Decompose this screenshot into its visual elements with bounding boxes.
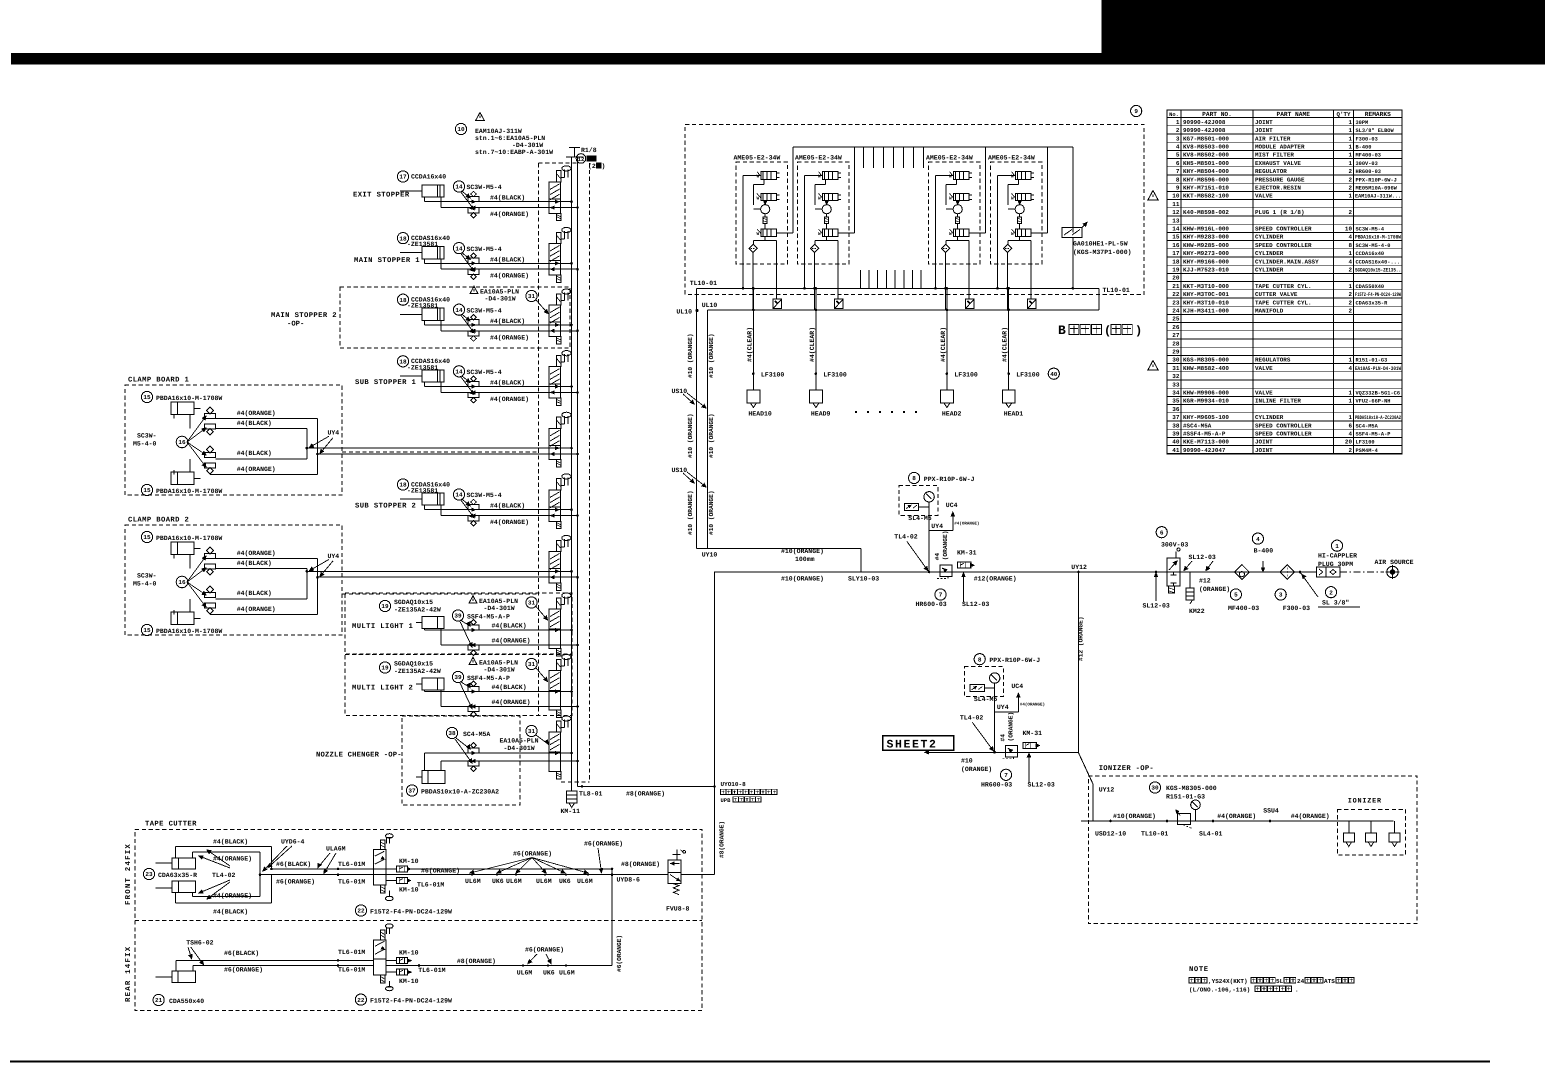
svg-text:(KGS-M37P1-000): (KGS-M37P1-000) <box>1073 249 1132 256</box>
svg-text:#4(ORANGE): #4(ORANGE) <box>237 466 276 473</box>
svg-text:TSH6-02: TSH6-02 <box>186 940 213 947</box>
title bar <box>11 53 1545 65</box>
wire pair station 7 to supply bus <box>322 570 572 572</box>
svg-text:38: 38 <box>1172 422 1180 429</box>
warning triangle ref row 31 <box>1148 361 1158 371</box>
svg-text:7: 7 <box>1176 168 1180 175</box>
rear cutter wires <box>176 959 373 961</box>
svg-text:#4(CLEAR): #4(CLEAR) <box>1002 327 1009 362</box>
svg-text:GA010HE1-PL-5W: GA010HE1-PL-5W <box>1073 241 1128 248</box>
svg-text:PBDA16x10-M-1708W: PBDA16x10-M-1708W <box>156 488 222 495</box>
svg-text:JOINT: JOINT <box>1255 447 1273 454</box>
svg-text:EAM10AJ-311W...: EAM10AJ-311W... <box>1355 194 1401 200</box>
svg-text:UYD6-4: UYD6-4 <box>281 839 305 846</box>
svg-text:31: 31 <box>528 661 536 668</box>
svg-text:UY12: UY12 <box>1099 787 1115 794</box>
svg-text:R151-01-G3: R151-01-G3 <box>1166 794 1205 801</box>
hi-cappler plug 30PM circle 1 <box>1331 540 1342 551</box>
svg-text:#4(CLEAR): #4(CLEAR) <box>940 327 947 362</box>
cylinder ref circle 18 <box>397 294 408 305</box>
front cutter wires to valve <box>272 868 374 870</box>
svg-text:2: 2 <box>1348 176 1352 183</box>
svg-text:UYD8-6: UYD8-6 <box>617 877 641 884</box>
svg-text:UL6M: UL6M <box>559 970 575 977</box>
svg-text:#10(ORANGE): #10(ORANGE) <box>781 548 824 555</box>
dash-dot line to air source <box>1340 571 1384 573</box>
svg-text:#4(ORANGE): #4(ORANGE) <box>1291 813 1330 820</box>
svg-text:1: 1 <box>1348 160 1352 167</box>
svg-text:31: 31 <box>528 728 536 735</box>
svg-text:4: 4 <box>1348 365 1352 372</box>
speed controllers on wires <box>468 381 479 386</box>
svg-text:#4: #4 <box>934 553 941 561</box>
svg-text:300V-03: 300V-03 <box>1356 161 1378 167</box>
svg-text:CDA63x35-R: CDA63x35-R <box>1356 300 1389 306</box>
svg-text:US10: US10 <box>672 467 688 474</box>
svg-text:6: 6 <box>1348 422 1352 429</box>
svg-text:SC3W-: SC3W- <box>137 433 157 440</box>
svg-text:1: 1 <box>1176 119 1180 126</box>
svg-text:39: 39 <box>454 674 462 681</box>
svg-text:2: 2 <box>1348 299 1352 306</box>
svg-text:-D4-301W: -D4-301W <box>504 745 535 752</box>
svg-text:VQZ332B-5G1-C6: VQZ332B-5G1-C6 <box>1356 391 1401 397</box>
svg-text:CDA550X40: CDA550X40 <box>1356 284 1385 290</box>
svg-text:SL 3/8": SL 3/8" <box>1322 600 1349 607</box>
svg-text:SL12-03: SL12-03 <box>1028 781 1055 788</box>
svg-text:#10 (ORANGE): #10 (ORANGE) <box>708 413 715 458</box>
svg-text:20: 20 <box>1345 439 1353 446</box>
svg-text:15: 15 <box>143 394 151 401</box>
MULTI LIGHT 1 warning EA10A5-PLN circle 31 <box>469 596 477 603</box>
TL4-02 drop to regulator <box>994 712 996 753</box>
MAIN STOPPER 1 cylinder <box>422 247 444 259</box>
svg-text:1: 1 <box>1348 135 1352 142</box>
front cutter cylinder CDA63x35-R circle 23 <box>172 858 195 869</box>
svg-text:(: ( <box>1104 324 1111 338</box>
wire pair station 2 to supply bus <box>482 262 572 264</box>
svg-text:SL4-M5: SL4-M5 <box>908 515 932 522</box>
svg-text:4: 4 <box>1256 536 1260 543</box>
svg-text:-ZE135A2-42W: -ZE135A2-42W <box>394 668 441 675</box>
svg-text:(L/ONO.-106,-116): (L/ONO.-106,-116) <box>1189 987 1250 994</box>
svg-text:B: B <box>1058 323 1066 338</box>
wire pair station 1 to supply bus <box>482 201 572 203</box>
svg-text:F15T2-F4-PN-DC24-129W: F15T2-F4-PN-DC24-129W <box>370 909 452 916</box>
svg-text:19: 19 <box>381 603 389 610</box>
svg-text:8: 8 <box>1348 242 1352 249</box>
svg-text:#4(ORANGE): #4(ORANGE) <box>490 334 529 341</box>
svg-text:#4(ORANGE): #4(ORANGE) <box>490 396 529 403</box>
svg-text:AME05-E2-34W: AME05-E2-34W <box>795 155 842 162</box>
warning triangle ref row 10 <box>1148 191 1158 201</box>
svg-text:EXHAUST VALVE: EXHAUST VALVE <box>1255 160 1301 167</box>
svg-text:ATS: ATS <box>1324 978 1335 985</box>
abbreviated station ticks top <box>863 147 865 168</box>
svg-text:2: 2 <box>1348 185 1352 192</box>
svg-text:15: 15 <box>143 487 151 494</box>
exhaust valve 300V-03 circle 6 <box>1156 527 1167 538</box>
svg-text:24: 24 <box>1297 978 1305 985</box>
TAPE CUTTER dashed box <box>135 830 702 1011</box>
svg-text:SSF4-M5-A-P: SSF4-M5-A-P <box>1356 432 1391 438</box>
svg-text:37: 37 <box>408 788 416 795</box>
svg-text:32: 32 <box>1172 373 1180 380</box>
svg-text:2: 2 <box>1176 127 1180 134</box>
clamp board 2 UY4 junction <box>306 570 309 573</box>
drop to HEAD2 <box>946 288 948 390</box>
svg-text:REGULATORS: REGULATORS <box>1255 357 1291 364</box>
svg-text:11: 11 <box>1172 201 1180 208</box>
svg-text:SC3W-M5-4: SC3W-M5-4 <box>1356 227 1385 233</box>
svg-text:#4(ORANGE): #4(ORANGE) <box>213 856 252 863</box>
wire pair station 6 to supply bus <box>482 509 572 511</box>
SUB STOPPER 2 cylinder <box>422 493 444 505</box>
svg-text:#6(ORANGE): #6(ORANGE) <box>421 867 460 874</box>
svg-text:KM-11: KM-11 <box>561 808 581 815</box>
svg-text:PRESSURE GAUGE: PRESSURE GAUGE <box>1255 176 1305 183</box>
svg-text:UL6M: UL6M <box>536 878 552 885</box>
svg-text:TL6-01M: TL6-01M <box>417 882 444 889</box>
svg-text:-ZE135A2-42W: -ZE135A2-42W <box>394 607 441 614</box>
svg-text:HEAD9: HEAD9 <box>811 411 831 418</box>
svg-text:#6(ORANGE): #6(ORANGE) <box>525 947 564 954</box>
valve V10 station 10 <box>556 721 561 732</box>
svg-text:KM-10: KM-10 <box>399 858 419 865</box>
regulator HR600-03 circle 7 <box>1006 745 1018 757</box>
svg-text:#4(BLACK): #4(BLACK) <box>237 450 272 457</box>
speed controllers on wires <box>468 505 479 510</box>
svg-text:18: 18 <box>399 359 407 366</box>
svg-text:#4(ORANGE): #4(ORANGE) <box>490 211 529 218</box>
pressure gauge PPX-R10P-6W-J circle 8 <box>974 654 985 665</box>
svg-text:UY4: UY4 <box>328 430 340 437</box>
svg-text:18: 18 <box>399 297 407 304</box>
svg-text:CLAMP BOARD 1: CLAMP BOARD 1 <box>128 377 190 385</box>
TL10-01 bus <box>696 287 1099 289</box>
svg-text:PBDAS10x10-A-ZC230A2: PBDAS10x10-A-ZC230A2 <box>421 789 499 796</box>
svg-text:9: 9 <box>1176 185 1180 192</box>
svg-text:19: 19 <box>1172 267 1180 274</box>
svg-text:10: 10 <box>1345 226 1353 233</box>
svg-text:14: 14 <box>455 369 463 376</box>
svg-text:US10: US10 <box>672 388 688 395</box>
svg-text:6: 6 <box>1160 529 1164 536</box>
svg-text:#6(ORANGE): #6(ORANGE) <box>224 967 263 974</box>
svg-text:29: 29 <box>1172 349 1180 356</box>
svg-text:#10 (ORANGE): #10 (ORANGE) <box>687 333 694 378</box>
svg-text:25: 25 <box>1172 316 1180 323</box>
SUB STOPPER 1 cylinder <box>422 370 444 382</box>
MULTI LIGHT 1 speed controllers SSF4 circle 39 <box>452 610 463 621</box>
svg-text:SC3W-M5-4: SC3W-M5-4 <box>467 246 502 253</box>
svg-text:SHEET2: SHEET2 <box>887 739 938 752</box>
cylinder ref circle 18 <box>397 233 408 244</box>
valve V6 station 6 <box>556 479 561 490</box>
svg-text:22: 22 <box>357 908 365 915</box>
nozzle chenger cylinder PBDAS10x10 circle 37 <box>422 771 445 784</box>
svg-text:16: 16 <box>1172 242 1180 249</box>
svg-text:KV8-M8503-000: KV8-M8503-000 <box>1183 144 1229 151</box>
svg-text:TAPE CUTTER CYL.: TAPE CUTTER CYL. <box>1255 299 1312 306</box>
svg-text:EA10A5-PLN: EA10A5-PLN <box>500 738 539 745</box>
svg-text:UY10: UY10 <box>702 552 718 559</box>
UY10 wire <box>696 548 861 550</box>
svg-text:CYLINDER: CYLINDER <box>1255 234 1284 241</box>
svg-text:TL10-01: TL10-01 <box>1141 831 1168 838</box>
svg-text:#4(BLACK): #4(BLACK) <box>237 420 272 427</box>
svg-text:3: 3 <box>1176 135 1180 142</box>
svg-text:18: 18 <box>399 235 407 242</box>
svg-text:40: 40 <box>1172 439 1180 446</box>
svg-text:SPEED CONTROLLER: SPEED CONTROLLER <box>1255 226 1312 233</box>
svg-text:UL10: UL10 <box>676 309 692 316</box>
svg-text:#4: #4 <box>999 734 1006 742</box>
svg-text:stn.1~6:EA10A5-PLN: stn.1~6:EA10A5-PLN <box>475 135 545 142</box>
svg-text:PART NO.: PART NO. <box>1202 111 1232 118</box>
svg-text:REGULATOR: REGULATOR <box>1255 168 1287 175</box>
svg-text:23: 23 <box>145 871 153 878</box>
svg-text:4: 4 <box>1348 234 1352 241</box>
ionizer regulator R151-01-G3 circle 30 <box>1149 782 1160 793</box>
svg-text:EXIT STOPPER: EXIT STOPPER <box>353 192 410 200</box>
svg-text:KM-31: KM-31 <box>957 550 977 557</box>
clamp board 2 cylinder lower PBDA16x10 circle 15 <box>141 624 152 635</box>
svg-text:#12(ORANGE): #12(ORANGE) <box>974 576 1017 583</box>
svg-text:10: 10 <box>457 126 465 133</box>
svg-text:8: 8 <box>1176 176 1180 183</box>
clamp board 2 wires <box>210 558 318 560</box>
svg-text:#6(BLACK): #6(BLACK) <box>276 861 311 868</box>
svg-text:-ZE13581: -ZE13581 <box>407 303 438 310</box>
svg-text:EJECTOR.RESIN: EJECTOR.RESIN <box>1255 185 1301 192</box>
svg-text:SPEED CONTROLLER: SPEED CONTROLLER <box>1255 431 1312 438</box>
svg-text:KHY-M3T0C-001: KHY-M3T0C-001 <box>1183 291 1229 298</box>
svg-text:LF3100: LF3100 <box>761 372 785 379</box>
svg-text:TL4-02: TL4-02 <box>960 715 984 722</box>
svg-text:KGS-M8305-000: KGS-M8305-000 <box>1183 357 1229 364</box>
speed controller SC3W-M5-4 circle 14 <box>453 304 464 315</box>
svg-text:15: 15 <box>1172 234 1180 241</box>
svg-text:-ZE13581: -ZE13581 <box>407 364 438 371</box>
svg-text:#SSF4-M5-A-P: #SSF4-M5-A-P <box>1183 431 1226 438</box>
svg-text:SGDAQ10x15-ZE135..: SGDAQ10x15-ZE135.. <box>1355 268 1401 274</box>
SHEET2 line <box>925 751 1079 753</box>
svg-text:TAPE CUTTER: TAPE CUTTER <box>145 821 197 829</box>
manifold title EAM10AJ-311W with circle 10 <box>476 113 485 121</box>
svg-text:KM-31: KM-31 <box>1023 730 1043 737</box>
svg-text:UL10: UL10 <box>702 302 718 309</box>
svg-text:): ) <box>602 163 606 170</box>
svg-text:JOINT: JOINT <box>1255 119 1273 126</box>
svg-text:1: 1 <box>1348 152 1352 159</box>
svg-text:31: 31 <box>528 600 536 607</box>
svg-text:B-400: B-400 <box>1254 548 1274 555</box>
clamp board 1 wires <box>210 418 318 420</box>
svg-text:CCDA16x40: CCDA16x40 <box>411 173 446 180</box>
svg-text:16: 16 <box>178 579 186 586</box>
svg-text:#6(BLACK): #6(BLACK) <box>224 950 259 957</box>
svg-text:8: 8 <box>978 656 982 663</box>
svg-text:SC4-M5A: SC4-M5A <box>463 731 490 738</box>
UC4 branch <box>929 530 953 532</box>
svg-text:15: 15 <box>143 627 151 634</box>
svg-text:22: 22 <box>357 997 365 1004</box>
speed controllers on wires <box>468 258 479 263</box>
svg-text:36: 36 <box>1172 406 1180 413</box>
valve V8 station 8 <box>556 598 561 609</box>
svg-text:UK6: UK6 <box>543 970 555 977</box>
svg-text:#10 (ORANGE): #10 (ORANGE) <box>708 333 715 378</box>
svg-text:#4(ORANGE): #4(ORANGE) <box>1217 813 1256 820</box>
bottom border line <box>10 1061 1490 1063</box>
svg-text:#4(BLACK): #4(BLACK) <box>492 623 527 630</box>
svg-text:KJH-M3411-000: KJH-M3411-000 <box>1183 308 1229 315</box>
svg-text:CLAMP BOARD 2: CLAMP BOARD 2 <box>128 517 189 525</box>
svg-text:7: 7 <box>1004 772 1008 779</box>
svg-text:20: 20 <box>1172 275 1180 282</box>
svg-text:#4(BLACK): #4(BLACK) <box>490 195 525 202</box>
svg-text:KG7-M8501-000: KG7-M8501-000 <box>1183 135 1229 142</box>
svg-text:1: 1 <box>1348 390 1352 397</box>
svg-text:#12 (ORANGE): #12 (ORANGE) <box>1078 616 1085 661</box>
speed controller SC3W-M5-4 circle 14 <box>453 243 464 254</box>
svg-text:REMARKS: REMARKS <box>1365 111 1391 118</box>
front cutter wire loops <box>176 845 272 847</box>
svg-text:22: 22 <box>1172 291 1180 298</box>
svg-text:PBDA16x10-M-1708W: PBDA16x10-M-1708W <box>156 395 222 402</box>
svg-text:5: 5 <box>1176 152 1180 159</box>
svg-text:PSM4M-4: PSM4M-4 <box>1356 448 1379 454</box>
svg-text:#4(ORANGE): #4(ORANGE) <box>237 606 276 613</box>
svg-text:SGDAQ10x15: SGDAQ10x15 <box>394 599 433 606</box>
UC4 branch <box>995 711 1019 713</box>
svg-text:#6(ORANGE): #6(ORANGE) <box>616 935 623 972</box>
svg-text:SL12-03: SL12-03 <box>962 601 989 608</box>
svg-text:F15T2-F4-PN-DC24-129W: F15T2-F4-PN-DC24-129W <box>1355 292 1402 298</box>
svg-text:34: 34 <box>1172 390 1180 397</box>
svg-text:MAIN STOPPER 2: MAIN STOPPER 2 <box>271 312 337 320</box>
svg-text:CYLINDER: CYLINDER <box>1255 414 1284 421</box>
svg-text:AIR SOURCE: AIR SOURCE <box>1375 559 1414 566</box>
svg-text:#10: #10 <box>961 758 973 765</box>
svg-text:CUTTER VALVE: CUTTER VALVE <box>1255 291 1298 298</box>
svg-text:TAPE CUTTER CYL.: TAPE CUTTER CYL. <box>1255 283 1312 290</box>
svg-text:PBDA16x10-M-1708W: PBDA16x10-M-1708W <box>156 628 222 635</box>
svg-text:SUB STOPPER 1: SUB STOPPER 1 <box>355 379 417 387</box>
svg-text:31: 31 <box>528 293 536 300</box>
svg-text:21: 21 <box>1172 283 1180 290</box>
svg-text:SC3W-M5-4: SC3W-M5-4 <box>467 492 502 499</box>
svg-text:100mm: 100mm <box>795 556 815 563</box>
svg-text:W: W <box>1011 232 1014 237</box>
svg-text:Q'TY: Q'TY <box>1337 111 1351 118</box>
valve V9 station 9 <box>556 659 561 670</box>
svg-text:TL6-01M: TL6-01M <box>338 949 365 956</box>
svg-text:(ORANGE): (ORANGE) <box>1199 586 1230 593</box>
speed controller SC3W-M5-4 circle 14 <box>453 181 464 192</box>
svg-text:MF400-03: MF400-03 <box>1228 605 1259 612</box>
svg-text:UL6M: UL6M <box>517 970 533 977</box>
front cutter valve ref circle 22 <box>355 905 366 916</box>
svg-text:#4(BLACK): #4(BLACK) <box>490 318 525 325</box>
front KM-10 fittings <box>396 866 407 872</box>
svg-text:SPEED CONTROLLER: SPEED CONTROLLER <box>1255 242 1312 249</box>
FVU8-8 wires <box>681 874 714 876</box>
svg-text:#4(BLACK): #4(BLACK) <box>237 590 272 597</box>
svg-text:EA10A5-PLN-D4-301W: EA10A5-PLN-D4-301W <box>1355 366 1402 372</box>
svg-text:90990-42J008: 90990-42J008 <box>1183 119 1226 126</box>
svg-text:#10 (ORANGE): #10 (ORANGE) <box>687 413 694 458</box>
svg-text:TL4-02: TL4-02 <box>212 872 236 879</box>
svg-text:16: 16 <box>178 439 186 446</box>
svg-text:SC3W-M5-4: SC3W-M5-4 <box>467 184 502 191</box>
NOZZLE CHENGER dashed box <box>402 716 520 805</box>
svg-text:EA10A5-PLN: EA10A5-PLN <box>480 289 519 296</box>
KM-11 silencer <box>571 782 573 791</box>
cylinder ref circle 18 <box>397 356 408 367</box>
svg-text:31: 31 <box>1172 365 1180 372</box>
svg-text:14: 14 <box>1172 226 1180 233</box>
svg-text:MULTI LIGHT 2: MULTI LIGHT 2 <box>352 685 413 693</box>
svg-text:EA10A5-PLN: EA10A5-PLN <box>479 660 518 667</box>
svg-text:#4(BLACK): #4(BLACK) <box>490 503 525 510</box>
svg-text:UC4: UC4 <box>1011 683 1023 690</box>
ionizer supply line <box>1081 820 1394 822</box>
valve ref EA10A5-PLN circle 31 <box>470 286 478 293</box>
svg-text:VALVE: VALVE <box>1255 390 1273 397</box>
svg-text:KJJ-M7523-010: KJJ-M7523-010 <box>1183 267 1229 274</box>
FVU8-8 pilot valve <box>668 860 681 872</box>
svg-text:W: W <box>1011 197 1014 202</box>
svg-text:5L: 5L <box>1276 978 1284 985</box>
svg-text:LF3100: LF3100 <box>1016 372 1040 379</box>
svg-text:F300-03: F300-03 <box>1283 605 1310 612</box>
svg-text:KHY-M3T10-010: KHY-M3T10-010 <box>1183 299 1229 306</box>
svg-text:#4(ORANGE): #4(ORANGE) <box>237 550 276 557</box>
main supply line <box>714 571 1316 573</box>
svg-text:CYLINDER: CYLINDER <box>1255 267 1284 274</box>
svg-text:F15T2-F4-PN-DC24-129W: F15T2-F4-PN-DC24-129W <box>370 998 452 1005</box>
svg-text:2: 2 <box>1348 209 1352 216</box>
circle 40 LF3100 ref <box>1048 368 1059 379</box>
svg-text:2: 2 <box>1348 267 1352 274</box>
joint square on UL10 bus <box>835 299 844 309</box>
module adapter B-400 circle 4 <box>1262 561 1264 571</box>
svg-text:5: 5 <box>1234 592 1238 599</box>
svg-text:NOZZLE CHENGER -OP-: NOZZLE CHENGER -OP- <box>316 752 402 760</box>
KM22 silencer <box>1189 586 1191 588</box>
svg-text:41: 41 <box>1172 447 1180 454</box>
top-right title block <box>1102 0 1545 65</box>
svg-text:VFU2-66P-NH: VFU2-66P-NH <box>1356 399 1391 405</box>
svg-text:UPB: UPB <box>721 797 732 804</box>
svg-text:UY4: UY4 <box>931 523 943 530</box>
svg-text:LF3100: LF3100 <box>1356 440 1375 446</box>
svg-text:AME05-E2-34W: AME05-E2-34W <box>988 155 1035 162</box>
CLAMP BOARD 1 dashed box <box>125 385 342 495</box>
rear output wires <box>386 965 612 967</box>
svg-text:W: W <box>949 232 952 237</box>
svg-text:KM-10: KM-10 <box>399 887 419 894</box>
supply header line in head box <box>793 146 1073 148</box>
svg-text:#10(ORANGE): #10(ORANGE) <box>1113 813 1156 820</box>
svg-text:PPX-R10P-6W-J: PPX-R10P-6W-J <box>924 476 975 483</box>
clamp board 2 cylinder upper PBDA16x10 circle 15 <box>141 531 152 542</box>
joint square on UL10 bus <box>966 299 975 309</box>
svg-text:23: 23 <box>1172 299 1180 306</box>
svg-text:M5-4-0: M5-4-0 <box>133 441 157 448</box>
